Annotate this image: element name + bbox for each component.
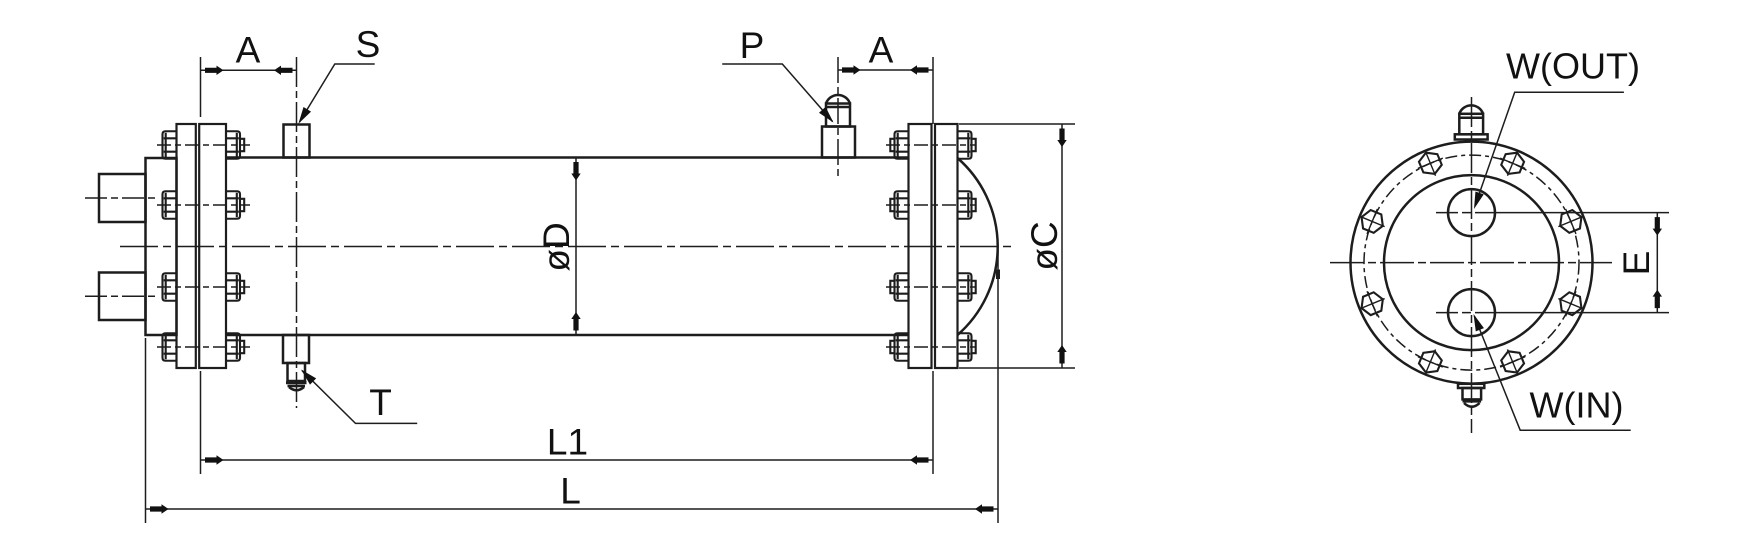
svg-text:W(IN): W(IN) (1530, 385, 1624, 426)
svg-text:T: T (369, 382, 392, 423)
svg-text:A: A (236, 30, 261, 71)
svg-text:L: L (560, 471, 581, 512)
svg-text:øC: øC (1024, 221, 1065, 270)
svg-text:A: A (869, 30, 894, 71)
svg-text:L1: L1 (547, 422, 588, 463)
svg-text:øD: øD (536, 222, 577, 271)
svg-text:W(OUT): W(OUT) (1506, 46, 1640, 87)
svg-text:E: E (1616, 251, 1657, 276)
svg-text:S: S (356, 24, 381, 65)
svg-text:P: P (740, 25, 765, 66)
